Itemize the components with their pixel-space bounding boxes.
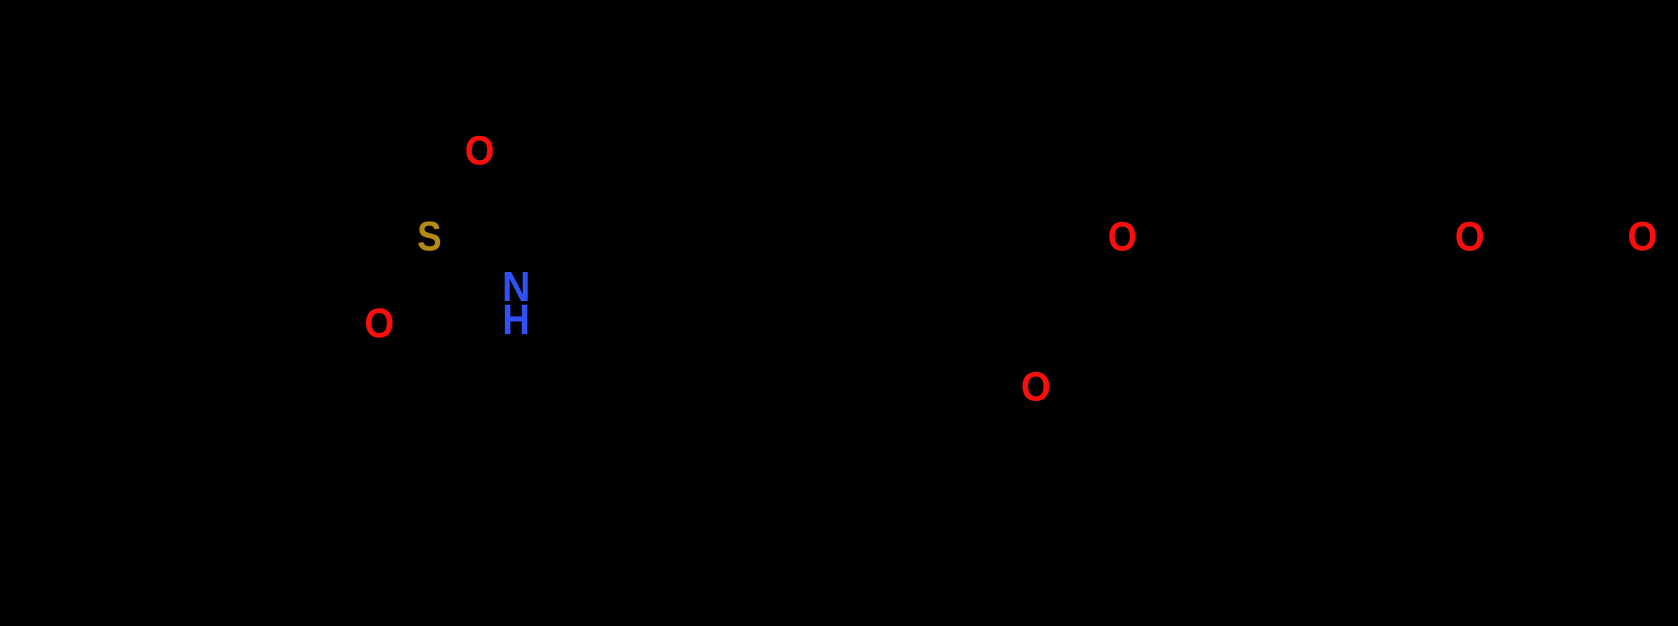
double bond S=O1 xyxy=(440,167,485,228)
methyl bond C4-CH3 xyxy=(81,386,168,436)
double bond C2=O6 xyxy=(1553,245,1626,295)
bond N-CH2 xyxy=(530,295,603,337)
double bond C3=C4 xyxy=(1470,373,1557,437)
bond C8a - O5 xyxy=(1383,246,1453,287)
coumarin benzene ring xyxy=(1209,236,1383,437)
bond O5 - C2 xyxy=(1486,246,1557,287)
bond S-N xyxy=(446,246,498,276)
atom label H amine hydrogen xyxy=(505,305,527,334)
atom label O5 lactone ring oxygen xyxy=(1456,222,1483,251)
coumarin benzene inner double bonds xyxy=(1221,248,1371,425)
double bond C=O4 xyxy=(1028,293,1042,365)
atom label N sulfonamide nitrogen xyxy=(505,272,528,301)
atom label O3 ester oxygen xyxy=(1109,222,1135,251)
chain bond CH2-CH2 c xyxy=(777,287,864,337)
bond O3 - aryl C7 xyxy=(1138,245,1209,287)
bond C4-C4a xyxy=(1383,387,1470,437)
atom label O1 sulfonyl oxygen top xyxy=(466,136,493,165)
bond ring C1 - S xyxy=(342,250,414,286)
atom label O4 ester carbonyl oxygen xyxy=(1023,372,1050,401)
bond C2-C3 xyxy=(1554,287,1560,387)
double bond S=O2 xyxy=(373,244,418,305)
atom label O6 lactone carbonyl oxygen xyxy=(1629,222,1656,251)
bond ester C - O3 xyxy=(1041,245,1106,283)
chain bond CH2-CH2 d xyxy=(864,287,951,337)
chain bond CH2-CH2 b xyxy=(690,287,777,337)
tolyl benzene ring xyxy=(168,236,342,436)
chain bond CH2-CH2 a xyxy=(603,287,690,337)
chain bond CH2 - ester carbon xyxy=(951,287,1035,337)
tolyl ring inner double bonds xyxy=(180,254,330,418)
atom label S sulfonyl sulfur xyxy=(418,221,440,250)
atom label O2 sulfonyl oxygen bottom xyxy=(366,308,393,338)
